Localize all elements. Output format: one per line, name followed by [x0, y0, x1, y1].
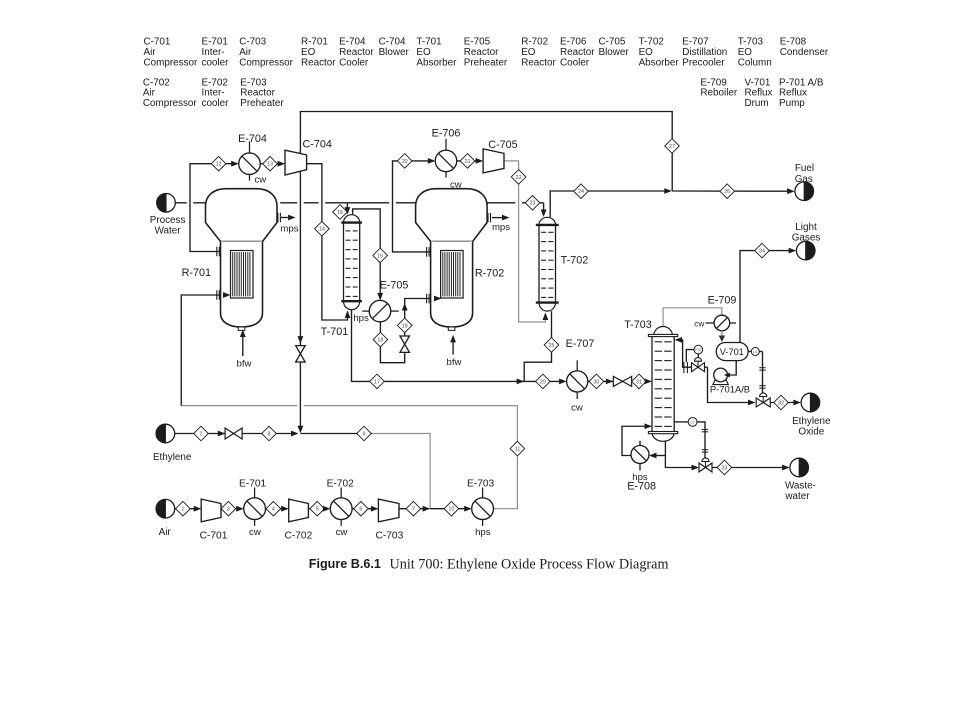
svg-text:Process: Process	[150, 215, 186, 226]
drum V-701	[716, 343, 748, 361]
stream diamond 13	[263, 156, 278, 171]
stream diamond 26	[720, 184, 735, 199]
wire T-701 overhead to E-705 stream 16	[353, 209, 381, 299]
svg-text:Blower: Blower	[379, 47, 410, 58]
svg-text:Reactor: Reactor	[301, 58, 336, 69]
svg-text:8: 8	[268, 431, 271, 437]
exchanger E-708 reboiler	[631, 446, 649, 464]
svg-text:10: 10	[448, 507, 454, 513]
svg-text:Reboiler: Reboiler	[700, 88, 737, 99]
svg-text:C-703: C-703	[376, 531, 404, 542]
stream diamond 11	[510, 441, 525, 456]
reactor R-702	[416, 189, 488, 331]
wire LC signal to product valve (V-701)	[748, 351, 751, 353]
blower C-704	[285, 150, 307, 175]
svg-text:E-701: E-701	[202, 36, 229, 47]
svg-text:hps: hps	[353, 313, 369, 324]
svg-text:E-705: E-705	[380, 280, 409, 292]
flange R-701 feed nozzle	[217, 290, 220, 300]
svg-text:E-706: E-706	[432, 127, 461, 139]
svg-text:Oxide: Oxide	[798, 426, 824, 437]
wire E-707 outlet to T-703 streams 30/31	[588, 380, 650, 382]
svg-text:21: 21	[465, 159, 471, 165]
wire E-708 reboiler loop	[651, 455, 665, 457]
wire T-702 overhead and fuel gas header streams 24/26	[550, 191, 670, 217]
svg-text:E-703: E-703	[467, 478, 495, 489]
flag waste water outlet	[790, 458, 809, 477]
svg-text:Figure B.6.1: Figure B.6.1	[309, 557, 381, 571]
flag ethylene oxide outlet	[801, 393, 820, 412]
svg-text:E-706: E-706	[560, 36, 587, 47]
stream diamond 21	[460, 154, 475, 169]
stream diamond 18	[373, 332, 388, 347]
svg-text:R-701: R-701	[182, 267, 211, 279]
svg-text:Unit 700: Ethylene Oxide Proce: Unit 700: Ethylene Oxide Process Flow Di…	[390, 556, 669, 572]
wire R-701 mps outlet	[281, 217, 294, 219]
svg-text:6: 6	[359, 507, 362, 513]
wire air train stream 1-10	[175, 508, 200, 510]
reactor R-701	[206, 189, 278, 331]
flange R-702 product nozzle	[427, 247, 430, 257]
wire FIC tap and signal	[686, 350, 694, 362]
svg-text:Water: Water	[155, 226, 182, 237]
wire T-703 bottoms to waste water stream 33	[665, 441, 697, 467]
svg-text:29: 29	[540, 379, 546, 385]
svg-text:FIC: FIC	[695, 348, 701, 352]
svg-text:T-702: T-702	[561, 255, 589, 267]
wire R-701 product to E-704 stream 12	[190, 164, 237, 252]
svg-text:C-701: C-701	[144, 36, 171, 47]
flange R-702 mps nozzle	[488, 213, 491, 223]
stream diamond 34	[755, 243, 770, 258]
stream diamond 8	[262, 426, 277, 441]
column T-702 EO absorber	[536, 217, 559, 311]
wire T-701 bottoms main line stream 17/29	[352, 310, 565, 382]
stream diamond 16	[373, 248, 388, 263]
wire E-704 to C-704 stream 13	[260, 163, 283, 165]
flange R-701 product nozzle	[217, 247, 220, 257]
svg-text:mps: mps	[492, 222, 510, 233]
stream diamond 5	[310, 501, 325, 516]
wire water drop into T-702 top	[543, 203, 545, 213]
svg-text:E-707: E-707	[682, 36, 708, 47]
svg-text:hps: hps	[475, 527, 491, 538]
wire ethylene feed stream 2/8	[175, 433, 297, 435]
svg-text:cw: cw	[255, 175, 267, 186]
svg-text:Ethylene: Ethylene	[792, 416, 831, 427]
stream diamond 23	[525, 196, 540, 211]
svg-text:Gas: Gas	[795, 174, 813, 185]
exchanger E-705	[362, 300, 399, 322]
svg-text:33: 33	[721, 465, 727, 471]
svg-text:Air: Air	[144, 47, 157, 58]
globe valve recycle line	[296, 346, 306, 362]
compressor C-703	[378, 499, 399, 522]
stream diamond 32	[774, 395, 789, 410]
svg-text:9: 9	[363, 431, 366, 437]
svg-text:Gases: Gases	[792, 233, 821, 244]
svg-text:EO: EO	[521, 47, 536, 58]
svg-text:Cooler: Cooler	[339, 58, 369, 69]
stream diamond 6	[354, 501, 369, 516]
stream diamond 33	[717, 460, 732, 475]
svg-text:Compressor: Compressor	[239, 58, 293, 69]
svg-text:E-707: E-707	[566, 338, 595, 350]
stream diamond 1	[176, 501, 191, 516]
svg-text:Distillation: Distillation	[682, 47, 727, 58]
svg-text:C-702: C-702	[285, 531, 313, 542]
control valve ethylene oxide product	[756, 393, 770, 407]
svg-text:Ethylene: Ethylene	[153, 452, 192, 463]
svg-text:3: 3	[227, 507, 230, 513]
stream diamond 22	[511, 170, 526, 185]
svg-text:Reactor: Reactor	[521, 58, 556, 69]
wire R-701 feed riser stream 11b	[181, 295, 228, 406]
flange R-701 mps nozzle	[278, 213, 281, 223]
svg-text:EO: EO	[416, 47, 431, 58]
stream diamond 9	[357, 426, 372, 441]
svg-text:Absorber: Absorber	[416, 58, 457, 69]
exchanger E-707	[567, 360, 588, 399]
svg-text:E-702: E-702	[327, 478, 355, 489]
svg-text:C-704: C-704	[379, 36, 406, 47]
svg-text:Condenser: Condenser	[780, 47, 829, 58]
instrument FIC	[694, 345, 703, 354]
svg-text:11: 11	[515, 447, 521, 453]
wire E-705 outlet via valve to R-702 feed nozzle streams 18/19	[380, 299, 439, 363]
svg-text:T-701: T-701	[416, 36, 442, 47]
stream diamond 7	[406, 501, 421, 516]
svg-text:Light: Light	[795, 222, 817, 233]
svg-text:Pump: Pump	[779, 98, 805, 109]
svg-text:2: 2	[200, 431, 203, 437]
control valve waste water	[699, 458, 712, 472]
globe valve stream 19	[400, 336, 410, 352]
wire E-708 hps stubs	[639, 441, 641, 446]
svg-text:14: 14	[319, 227, 325, 233]
svg-text:E-701: E-701	[239, 478, 267, 489]
stream diamond 25	[544, 338, 559, 353]
svg-text:Reactor: Reactor	[560, 47, 595, 58]
wire ethylene to air junction (gray)	[372, 434, 430, 509]
svg-text:bfw: bfw	[237, 359, 252, 370]
svg-text:C-703: C-703	[239, 36, 266, 47]
stream diamond 29	[536, 374, 551, 389]
column T-703 EO column	[648, 326, 677, 441]
stream diamond 31	[632, 374, 647, 389]
svg-text:1: 1	[181, 507, 184, 513]
svg-text:24: 24	[578, 189, 584, 195]
wire T-703 overhead to E-709 (gray)	[663, 308, 722, 327]
svg-text:18: 18	[377, 338, 383, 344]
stream diamond 27	[665, 139, 680, 154]
svg-text:V-701: V-701	[720, 347, 744, 357]
svg-text:E-705: E-705	[464, 36, 491, 47]
stream diamond 4	[266, 501, 281, 516]
wire C-705 discharge to T-702 bottom (gray)	[504, 161, 545, 322]
svg-text:20: 20	[402, 159, 408, 165]
svg-text:13: 13	[267, 162, 273, 168]
stream diamond 24	[574, 184, 589, 199]
wire E-706 to C-705 stream 21	[457, 160, 482, 162]
orifice flanges reflux line	[684, 362, 688, 373]
svg-text:Absorber: Absorber	[639, 58, 680, 69]
instrument LC on T-703	[688, 418, 697, 427]
exchanger E-706	[435, 139, 457, 178]
stream diamond 30	[589, 374, 604, 389]
svg-text:Precooler: Precooler	[682, 58, 725, 69]
svg-text:Reactor: Reactor	[339, 47, 374, 58]
flange R-702 feed nozzle	[427, 294, 430, 304]
svg-text:12: 12	[216, 162, 222, 168]
instrument LC on V-701	[751, 348, 759, 356]
svg-text:31: 31	[636, 379, 642, 385]
exchanger E-704	[239, 141, 261, 180]
svg-text:19: 19	[402, 323, 408, 329]
wire E-703 outlet riser stream 11 (gray)	[494, 406, 518, 509]
svg-text:Preheater: Preheater	[240, 98, 284, 109]
svg-text:Blower: Blower	[599, 47, 630, 58]
svg-text:Compressor: Compressor	[143, 98, 197, 109]
wire process water header stream 15/23 (with crossing gaps)	[175, 202, 187, 204]
svg-text:EO: EO	[639, 47, 654, 58]
valve stream 30-31	[613, 376, 631, 386]
stream diamond 3	[221, 501, 236, 516]
wire pump discharge to ethylene oxide product stream 32	[708, 367, 754, 402]
stream diamond 19	[397, 318, 412, 333]
wire recycle header stream 27 to ethylene junction	[300, 112, 672, 432]
wire feed header to reactors (gray)	[181, 405, 297, 407]
svg-text:Inter-: Inter-	[202, 47, 225, 58]
svg-text:22: 22	[516, 175, 522, 181]
svg-text:EO: EO	[738, 47, 753, 58]
stream diamond 20	[397, 154, 412, 169]
svg-text:cw: cw	[450, 180, 462, 191]
svg-text:Preheater: Preheater	[464, 58, 508, 69]
svg-text:cw: cw	[694, 319, 704, 328]
svg-text:30: 30	[593, 379, 599, 385]
wire T-702 bottoms stream 25	[524, 311, 551, 381]
column T-701 EO absorber	[341, 215, 362, 310]
signal slashes product line	[759, 368, 765, 370]
signal slashes waste line	[702, 429, 708, 431]
svg-text:16: 16	[377, 253, 383, 259]
flag fuel gas outlet	[795, 182, 814, 201]
svg-text:E-704: E-704	[238, 133, 267, 145]
stream diamond 14	[315, 221, 330, 236]
exchanger E-709 condenser	[706, 315, 737, 331]
svg-text:25: 25	[549, 343, 555, 349]
svg-text:C-701: C-701	[200, 531, 228, 542]
svg-text:E-709: E-709	[708, 294, 737, 306]
svg-text:cw: cw	[249, 527, 261, 538]
flag process water inlet	[157, 194, 176, 213]
svg-text:17: 17	[374, 379, 380, 385]
svg-text:T-703: T-703	[624, 319, 652, 331]
exchanger E-703	[472, 488, 494, 526]
wire V-701 vapor to light gases stream 34	[740, 251, 794, 343]
wire V-701 bottoms to pump P-701	[726, 361, 737, 375]
exchanger E-702	[330, 488, 352, 526]
svg-text:LC: LC	[753, 350, 758, 354]
stream diamond 15	[333, 205, 348, 220]
svg-text:E-708: E-708	[780, 36, 807, 47]
svg-text:R-702: R-702	[475, 267, 504, 279]
svg-text:Reactor: Reactor	[464, 47, 499, 58]
svg-text:C-704: C-704	[302, 139, 331, 151]
svg-text:bfw: bfw	[447, 357, 462, 368]
wire R-702 product to E-706 stream 20	[393, 161, 434, 252]
wire C-704 discharge to T-701 bottom stream 14	[307, 164, 348, 320]
svg-text:cooler: cooler	[202, 98, 230, 109]
svg-text:4: 4	[272, 507, 275, 513]
svg-text:Fuel: Fuel	[795, 163, 814, 174]
svg-text:C-705: C-705	[488, 139, 517, 151]
svg-text:R-701: R-701	[301, 36, 328, 47]
control valve reflux FIC	[692, 358, 705, 372]
svg-text:cooler: cooler	[202, 58, 230, 69]
svg-text:27: 27	[669, 144, 675, 150]
svg-text:Air: Air	[239, 47, 252, 58]
svg-text:cw: cw	[571, 403, 583, 414]
svg-text:7: 7	[412, 507, 415, 513]
wire R-701 bfw inlet	[242, 331, 244, 356]
stream diamond 10	[444, 501, 459, 516]
stream diamond 17	[370, 374, 385, 389]
svg-text:15: 15	[337, 210, 343, 216]
compressor C-701	[201, 499, 221, 522]
blower C-705	[483, 149, 504, 173]
svg-text:EO: EO	[301, 47, 316, 58]
wire water tap into T-701 top	[346, 203, 348, 211]
wire LC tap and signal at T-703 bottom	[674, 421, 688, 423]
svg-text:Compressor: Compressor	[144, 58, 198, 69]
valve ethylene feed	[225, 428, 242, 439]
flag ethylene inlet	[156, 424, 175, 443]
svg-text:T-702: T-702	[639, 36, 664, 47]
svg-text:32: 32	[778, 400, 784, 406]
svg-text:T-703: T-703	[738, 36, 764, 47]
svg-text:cw: cw	[336, 527, 348, 538]
wire R-702 mps outlet	[492, 217, 507, 219]
wire reflux from pump to T-703 top	[677, 340, 708, 367]
svg-text:C-705: C-705	[599, 36, 626, 47]
svg-text:T-701: T-701	[321, 326, 349, 338]
svg-text:Cooler: Cooler	[560, 58, 590, 69]
svg-text:34: 34	[759, 249, 765, 255]
svg-text:26: 26	[724, 189, 730, 195]
svg-text:P-701A/B: P-701A/B	[710, 383, 750, 394]
pump P-701A/B	[713, 368, 728, 385]
svg-text:Drum: Drum	[745, 98, 769, 109]
svg-text:mps: mps	[280, 224, 298, 235]
stream diamond 2	[194, 426, 209, 441]
stream diamond 12	[211, 156, 226, 171]
flag light gases outlet	[796, 241, 815, 260]
compressor C-702	[289, 499, 309, 522]
svg-text:5: 5	[316, 507, 319, 513]
svg-text:Waste-: Waste-	[785, 481, 816, 492]
arrowheads on process lines	[231, 161, 239, 167]
svg-text:Air: Air	[159, 527, 172, 538]
svg-text:Column: Column	[738, 58, 772, 69]
wire R-702 bfw inlet	[452, 337, 454, 355]
svg-text:23: 23	[530, 201, 536, 207]
svg-text:hps: hps	[632, 472, 648, 483]
svg-text:R-702: R-702	[521, 36, 548, 47]
svg-text:LC: LC	[690, 420, 695, 424]
svg-text:E-704: E-704	[339, 36, 366, 47]
flag air inlet	[156, 499, 175, 518]
svg-text:water: water	[784, 491, 810, 502]
exchanger E-701	[244, 488, 266, 526]
